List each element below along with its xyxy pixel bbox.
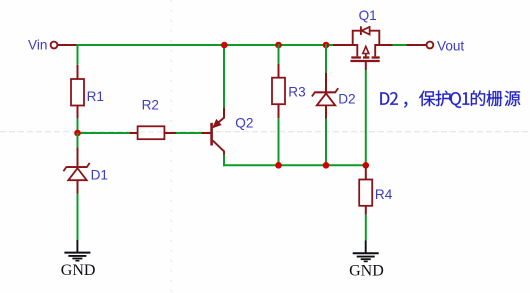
mosfet Q1 gate bar bbox=[350, 60, 379, 62]
faint vertical dotted grid line bbox=[170, 0, 172, 293]
wire: Q2 base pin (maroon) bbox=[201, 132, 211, 134]
wire: R4 to ground (green) bbox=[365, 215, 367, 241]
wire: Q1 gate down to bottom rail (green) bbox=[365, 70, 367, 165]
wire: R1 pin 1 (maroon) bbox=[77, 65, 79, 80]
resistor R2 body bbox=[138, 126, 165, 139]
resistor R4 body bbox=[359, 180, 372, 206]
wire: Q1 gate pin (maroon) bbox=[365, 62, 367, 70]
mosfet Q1 substrate arrow (pointing up) bbox=[365, 49, 367, 59]
mosfet Q1 body diode triangle (pointing left) bbox=[362, 27, 370, 35]
resistor R3 body bbox=[272, 78, 285, 105]
resistor R1 body bbox=[71, 79, 84, 106]
wire: Vin port pin (maroon) bbox=[58, 44, 78, 46]
mosfet Q1 body diode cathode bar bbox=[360, 26, 362, 35]
wire: D2 to bottom rail (green) bbox=[325, 119, 327, 166]
wire: Vout port pin (maroon) bbox=[407, 44, 427, 46]
wire: R4 pin 2 (maroon) bbox=[365, 206, 367, 215]
wire: R2 to Q2 base (green) bbox=[176, 132, 201, 134]
zener diode D2 triangle (anode below, pointing up) bbox=[317, 93, 335, 105]
wire: node A to R2 (green) bbox=[78, 132, 130, 134]
ground symbol left: bars bbox=[64, 252, 90, 254]
junction: rail / D2 top (red dot) bbox=[323, 42, 330, 49]
wire: D1 to ground (green) bbox=[77, 194, 79, 241]
wire: D1 anode pin (maroon) bbox=[77, 180, 79, 193]
wire: rail down to R3 (green) bbox=[278, 44, 280, 64]
svg-text:Q1: Q1 bbox=[359, 8, 377, 23]
svg-text:Vin: Vin bbox=[28, 38, 47, 53]
annotation text "D2，保护Q1的栅源" (blue note) bbox=[380, 90, 520, 107]
svg-text:R4: R4 bbox=[375, 187, 393, 202]
junction: bottom rail / gate / R4 (red dot) bbox=[363, 162, 370, 169]
svg-text:R1: R1 bbox=[87, 89, 104, 104]
mosfet Q1 drain contact bbox=[374, 44, 376, 56]
svg-text:D1: D1 bbox=[91, 167, 108, 182]
transistor Q2 collector diagonal (maroon) bbox=[213, 141, 224, 156]
transistor Q2 base bar bbox=[210, 123, 213, 146]
wire: R2 pin 2 (maroon) bbox=[165, 132, 176, 134]
mosfet Q1 source contact bbox=[356, 44, 358, 56]
ground symbol left: stem bbox=[76, 240, 78, 252]
faint horizontal grid line bbox=[0, 131, 530, 133]
port Vout (open circle terminal) bbox=[427, 42, 434, 49]
wire: R1 to node A (green) bbox=[77, 119, 79, 134]
wire: down from rail to R1 (green) bbox=[77, 44, 79, 65]
svg-text:D2: D2 bbox=[338, 91, 355, 106]
junction: rail / Q2 emitter (red dot) bbox=[221, 42, 228, 49]
svg-text:Q2: Q2 bbox=[235, 115, 253, 130]
wire: top rail Vin to Q1 (green) bbox=[77, 44, 334, 46]
zener diode D1 cathode bar with tails bbox=[63, 163, 89, 171]
zener diode D2 cathode bar with tails bbox=[312, 88, 338, 96]
ground symbol right: stem bbox=[365, 241, 367, 254]
svg-text:GND: GND bbox=[349, 262, 384, 279]
wire: node A down to D1 (green) bbox=[77, 133, 79, 148]
junction: bottom rail / D2 (red dot) bbox=[323, 162, 330, 169]
mosfet Q1 body-diode loop bbox=[353, 31, 380, 45]
wire: R3 pin 2 (maroon) bbox=[278, 104, 280, 118]
svg-text:R3: R3 bbox=[288, 85, 305, 100]
wire: Q2 emitter up to rail (green) bbox=[223, 44, 225, 108]
wire: R3 to bottom rail (green) bbox=[278, 118, 280, 165]
svg-text:GND: GND bbox=[61, 262, 96, 279]
wire: R1 pin 2 (maroon) bbox=[77, 106, 79, 119]
wire: Q1 source pin (maroon) bbox=[333, 44, 357, 46]
junction node A (red dot) bbox=[74, 130, 81, 137]
wire: D1 cathode pin (maroon) bbox=[77, 148, 79, 168]
svg-text:R2: R2 bbox=[142, 98, 159, 113]
wire: rail down to D2 (green) bbox=[325, 44, 327, 73]
port Vin (open circle terminal) bbox=[51, 42, 58, 49]
wire: Q2 collector down (green) bbox=[223, 155, 225, 166]
junction: bottom rail / R3 (red dot) bbox=[275, 162, 282, 169]
wire: D2 anode pin (maroon) bbox=[325, 105, 327, 118]
wire: drain to Vout (green) bbox=[393, 44, 407, 46]
mosfet Q1 channel segments bbox=[351, 56, 361, 58]
wire: R3 pin 1 (maroon) bbox=[278, 64, 280, 78]
wire: R4 pin 1 (maroon) bbox=[365, 165, 367, 180]
wire: Q1 drain pin (maroon) bbox=[375, 44, 392, 46]
transistor Q2 emitter diagonal with arrow into base (PNP) bbox=[214, 118, 224, 127]
wire: bottom rail Q2 to R4 node (green) bbox=[223, 164, 367, 166]
svg-text:Vout: Vout bbox=[437, 38, 464, 53]
junction: rail / R3 top (red dot) bbox=[275, 42, 282, 49]
wire: Q2 emitter pin vertical (maroon) bbox=[223, 108, 225, 119]
zener diode D1 triangle (anode below, pointing up) bbox=[68, 168, 86, 180]
wire: R2 pin 1 (maroon) bbox=[129, 132, 138, 134]
ground symbol right: bars bbox=[353, 252, 379, 254]
wire: D2 cathode pin (maroon) bbox=[325, 73, 327, 92]
